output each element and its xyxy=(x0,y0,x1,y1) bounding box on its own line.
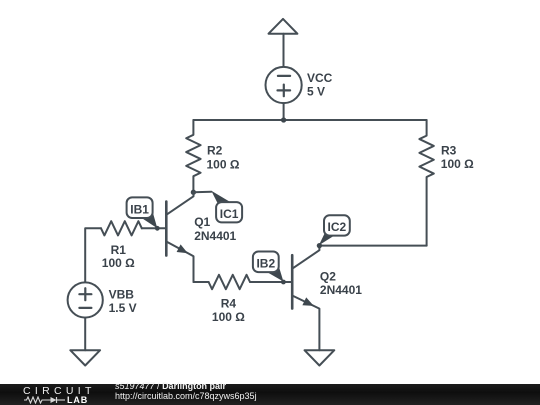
node IB1 anchor dot xyxy=(155,226,160,231)
svg-text:R4: R4 xyxy=(221,297,237,311)
junction dot top bus xyxy=(281,117,286,122)
svg-text:Q2: Q2 xyxy=(320,270,336,284)
node Q2 collector junction dot xyxy=(317,243,322,248)
label Q1 value xyxy=(194,215,236,243)
svg-text:5 V: 5 V xyxy=(307,84,325,98)
wire R3 bottom to Q2 collector xyxy=(319,245,426,247)
transistor Q2 xyxy=(292,246,319,350)
svg-text:IC2: IC2 xyxy=(328,220,347,234)
resistor R2 xyxy=(186,120,200,192)
transistor Q1 xyxy=(166,192,193,282)
footer title text xyxy=(115,381,226,391)
label R4 value xyxy=(212,297,245,325)
wire R1 to Q1 base xyxy=(142,227,167,229)
svg-text:100 Ω: 100 Ω xyxy=(102,256,135,270)
ground (Q2 emitter) xyxy=(305,350,335,365)
svg-text:100 Ω: 100 Ω xyxy=(212,310,245,324)
svg-text:IB1: IB1 xyxy=(130,202,149,216)
power flag VCC (top arrow) xyxy=(269,19,298,67)
svg-text:R3: R3 xyxy=(441,143,457,157)
label R1 value xyxy=(102,243,135,270)
footer url text xyxy=(115,391,257,401)
svg-text:1.5 V: 1.5 V xyxy=(109,301,137,315)
wire VBB to R1 (left vertical + horizontal) xyxy=(85,228,101,282)
label R3 value xyxy=(441,143,474,171)
wire top bus xyxy=(193,119,426,121)
svg-text:VCC: VCC xyxy=(307,71,333,85)
footer bar xyxy=(0,384,540,405)
svg-text:IC1: IC1 xyxy=(220,207,239,221)
CircuitLab logo xyxy=(23,385,96,397)
label VBB value xyxy=(109,287,137,315)
current label IB1 xyxy=(127,197,158,228)
current label IC2 xyxy=(319,215,350,245)
label VCC value xyxy=(307,71,333,99)
ground (VBB) xyxy=(70,350,100,365)
svg-text:VBB: VBB xyxy=(109,287,135,301)
wire R4 to Q2 base xyxy=(250,281,292,283)
current label IB2 xyxy=(253,252,284,282)
current label IC1 xyxy=(193,191,242,223)
logo squiggle: resistor + diode xyxy=(24,396,66,404)
svg-text:R2: R2 xyxy=(207,144,223,158)
label Q2 value xyxy=(320,270,362,298)
svg-text:100 Ω: 100 Ω xyxy=(207,157,240,171)
svg-text:IB2: IB2 xyxy=(256,256,275,270)
svg-text:2N4401: 2N4401 xyxy=(194,229,236,243)
svg-text:100 Ω: 100 Ω xyxy=(441,157,474,171)
node Q1 collector junction dot xyxy=(191,190,196,195)
node IB2 anchor dot xyxy=(281,280,286,285)
resistor R3 xyxy=(419,120,433,246)
resistor R1 xyxy=(101,221,142,235)
svg-text:2N4401: 2N4401 xyxy=(320,283,362,297)
svg-text:R1: R1 xyxy=(111,243,127,257)
voltage source VBB xyxy=(68,282,103,350)
svg-text:Q1: Q1 xyxy=(194,215,210,229)
label R2 value xyxy=(207,144,240,172)
wire Q1 emitter to R4 xyxy=(194,281,209,283)
resistor R4 xyxy=(209,275,250,289)
voltage source VCC xyxy=(266,67,302,120)
